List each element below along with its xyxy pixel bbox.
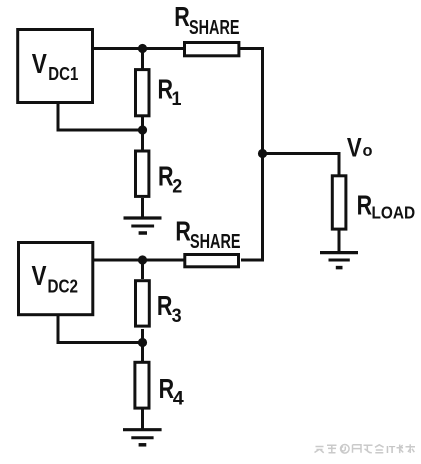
wire VDC1 bottom feedback	[58, 103, 143, 130]
resistor R1 body	[136, 70, 150, 116]
wire R1 top lead	[141, 49, 144, 71]
label R2	[158, 160, 182, 197]
svg-text:DC1: DC1	[48, 63, 78, 84]
svg-text:DC2: DC2	[48, 275, 79, 296]
svg-text:R: R	[174, 1, 190, 32]
svg-text:R: R	[357, 189, 373, 220]
wire VDC2 bottom feedback	[58, 315, 143, 343]
wire VDC2 right to RSHARE2	[93, 259, 185, 262]
wire VDC1 right to RSHARE1	[93, 47, 185, 50]
label R4	[159, 373, 184, 410]
svg-text:R: R	[157, 290, 173, 321]
wire R1 bottom lead	[141, 116, 144, 131]
resistor R3 body	[136, 281, 150, 326]
label Vo	[347, 132, 373, 162]
ground G1	[124, 218, 162, 233]
wire vertical bus	[261, 47, 264, 262]
ground G3	[123, 430, 162, 445]
label RSHARE2	[175, 215, 240, 253]
wire RSHARE1 to bus	[240, 47, 264, 50]
svg-text:IT: IT	[386, 444, 396, 456]
node A junction dot	[138, 44, 147, 53]
svg-text:V: V	[32, 48, 47, 79]
ground G2	[320, 253, 358, 268]
voltage source VDC1	[18, 30, 93, 103]
wire RSHARE2 to bus	[241, 259, 264, 262]
wire R4 bottom lead	[141, 409, 144, 432]
svg-text:2: 2	[172, 176, 182, 198]
svg-text:o: o	[363, 141, 373, 160]
resistor RSHARE2 body	[185, 255, 239, 267]
label V_DC2	[32, 260, 79, 297]
wire R3 top lead	[141, 260, 144, 279]
wire R2 top lead	[141, 130, 144, 151]
svg-text:R: R	[159, 373, 175, 404]
svg-text:V: V	[32, 260, 47, 291]
label V_DC1	[32, 48, 79, 84]
svg-text:SHARE: SHARE	[190, 230, 241, 253]
svg-text:V: V	[347, 132, 362, 162]
node B junction dot	[138, 125, 147, 134]
svg-text:R: R	[158, 160, 174, 191]
wire RLOAD bottom lead	[338, 229, 341, 253]
node E junction dot	[138, 338, 147, 347]
watermark 头条@卧龙会IT技术	[315, 445, 384, 454]
label RLOAD	[357, 189, 416, 222]
resistor R2 body	[136, 151, 149, 196]
wire node C to Vo corner	[263, 154, 340, 177]
svg-text:1: 1	[172, 88, 182, 110]
label RSHARE1	[174, 1, 239, 39]
svg-text:SHARE: SHARE	[189, 16, 240, 39]
svg-text:LOAD: LOAD	[372, 202, 416, 222]
svg-text:3: 3	[172, 305, 182, 327]
label R1	[158, 74, 182, 111]
resistor R4 body	[135, 362, 149, 408]
node D junction dot	[138, 255, 147, 264]
wire R4 top lead	[141, 343, 144, 363]
voltage source VDC2	[19, 243, 93, 315]
wire R3 bottom lead	[141, 329, 144, 343]
wire R2 bottom lead	[141, 198, 144, 219]
resistor RLOAD body	[332, 176, 346, 229]
node C junction dot	[258, 149, 267, 158]
svg-text:4: 4	[173, 388, 184, 410]
label R3	[157, 290, 182, 327]
svg-text:R: R	[175, 215, 191, 246]
resistor RSHARE1 body	[185, 43, 239, 56]
